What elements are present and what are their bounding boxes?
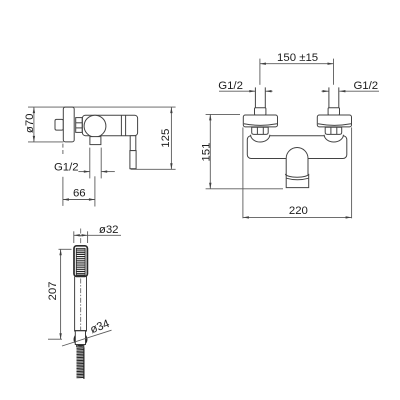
right inlet pipe xyxy=(328,87,330,108)
G1/2 leader left arrow xyxy=(78,171,89,173)
lever handle upper segment (side view) xyxy=(130,136,136,151)
left fitting block xyxy=(255,108,266,115)
hand shower rib block xyxy=(76,248,85,275)
dim ø32 left extension line xyxy=(73,231,75,243)
hex nut (side view) xyxy=(76,118,83,133)
dim 207 arrow up xyxy=(59,249,61,255)
svg-text:ø70: ø70 xyxy=(24,113,36,133)
dim ø32 arrow left xyxy=(74,234,80,236)
left union dome xyxy=(251,135,270,142)
left inlet pipe xyxy=(254,87,256,108)
dim 151 top extension line xyxy=(206,113,240,115)
right hex nut (front view) xyxy=(325,127,342,134)
dim 220 arrow right xyxy=(346,216,352,218)
dim 125 dimension line xyxy=(170,107,172,169)
dim 220 dimension line xyxy=(243,216,352,218)
hand shower ribs xyxy=(76,250,85,274)
dim 66 right extension line (outlet centerline) xyxy=(94,176,96,206)
spout inner arc xyxy=(286,178,309,180)
dim 207 arrow down xyxy=(59,333,61,339)
left hex nut (front view) xyxy=(252,127,269,134)
dim 66 arrow left xyxy=(63,198,69,200)
ball joint fitting xyxy=(75,333,87,345)
dim ø70 arrow up xyxy=(33,107,35,113)
svg-text:151: 151 xyxy=(200,143,212,162)
shower outlet stub (side view) xyxy=(90,137,101,145)
dim ø32 arrow right xyxy=(82,234,88,236)
svg-text:ø32: ø32 xyxy=(99,224,119,236)
dim 220 left extension line xyxy=(242,127,244,218)
dim 151 arrow up xyxy=(209,114,211,120)
valve circle (side view) xyxy=(84,115,106,137)
cartridge dome (front view) xyxy=(286,148,308,176)
dim 150 arrow right xyxy=(328,63,334,65)
dim ø70 arrow down xyxy=(33,136,35,142)
dim 220 arrow left xyxy=(243,216,249,218)
dim 150 arrow left xyxy=(260,63,266,65)
G1/2 leader right arrow xyxy=(101,171,115,173)
svg-text:G1/2: G1/2 xyxy=(353,80,378,92)
svg-text:ø34: ø34 xyxy=(89,318,112,336)
left G1/2 outer right arrow xyxy=(266,90,273,92)
dim 125 bottom extension line xyxy=(131,168,176,170)
left escutcheon flange xyxy=(243,115,277,127)
cartridge collar arc xyxy=(285,174,308,177)
valve body housing (side view) xyxy=(82,115,137,136)
right fitting block xyxy=(328,108,339,115)
dim ø70 dimension line xyxy=(33,107,35,142)
dim 150 right extension line xyxy=(333,59,335,85)
svg-text:150 ±15: 150 ±15 xyxy=(277,52,318,64)
wall flange (side view) xyxy=(63,107,74,142)
svg-text:G1/2: G1/2 xyxy=(54,162,79,174)
dim 207 dimension line xyxy=(60,249,62,339)
right union dome xyxy=(324,135,343,142)
hand shower centerline top xyxy=(80,229,82,245)
dim 66 arrow right xyxy=(89,198,95,200)
dim ø32 right extension line xyxy=(87,231,89,243)
dim 66 left extension line xyxy=(62,177,64,206)
svg-text:125: 125 xyxy=(160,129,172,148)
inlet square fitting (side view) xyxy=(55,119,63,130)
dim 151 dimension line xyxy=(209,114,211,188)
svg-text:220: 220 xyxy=(289,205,308,217)
svg-text:G1/2: G1/2 xyxy=(218,80,243,92)
hose corrugations xyxy=(77,348,84,378)
svg-text:207: 207 xyxy=(47,281,59,300)
dim ø70 bottom extension line xyxy=(28,141,63,143)
dim 207 top extension line xyxy=(59,248,72,250)
flange centerline dashed xyxy=(62,144,64,157)
spout (front view) xyxy=(286,174,309,187)
dim ø70 top extension line xyxy=(28,106,176,108)
outlet left extension line xyxy=(89,148,91,179)
body groove lines xyxy=(120,115,122,135)
dim ø32 dimension line with underline xyxy=(74,234,121,236)
outlet right extension line xyxy=(100,148,102,179)
dim 207 bottom extension line xyxy=(48,338,62,340)
left escutcheon bottom arc xyxy=(244,124,277,126)
right G1/2 underline leader with arrow xyxy=(339,90,379,92)
hex nut facet lines xyxy=(76,122,83,124)
dim 150 dimension line xyxy=(260,63,334,65)
dim 125 arrow up xyxy=(170,107,172,113)
lever handle lower segment (side view) xyxy=(130,151,136,169)
right G1/2 outer left arrow xyxy=(322,90,329,92)
hand shower handle xyxy=(75,277,87,331)
right escutcheon flange xyxy=(317,115,351,127)
hose connector step xyxy=(77,345,84,347)
svg-text:66: 66 xyxy=(73,187,86,199)
body of mixer (front view) xyxy=(247,136,346,159)
dim 151 arrow down xyxy=(209,183,211,189)
dim 220 right extension line xyxy=(351,127,353,218)
dim 151 bottom extension line xyxy=(206,188,283,190)
handle centerline xyxy=(80,279,82,331)
dim 150 left extension line xyxy=(259,59,261,85)
hose right edge xyxy=(83,347,85,379)
ø34 leader line xyxy=(62,330,112,346)
dim 66 dimension line xyxy=(63,199,95,201)
right escutcheon bottom arc xyxy=(318,124,351,126)
dim 125 arrow down xyxy=(170,163,172,169)
ball joint nut xyxy=(75,331,85,345)
hand shower head xyxy=(74,246,87,277)
handle bottom line xyxy=(74,330,87,332)
left G1/2 underline leader with arrow xyxy=(219,90,255,92)
